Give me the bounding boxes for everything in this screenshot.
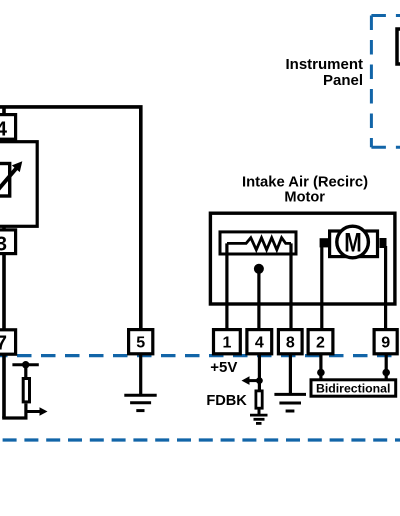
pin 2 bbox=[308, 330, 333, 354]
svg-text:FDBK: FDBK bbox=[206, 393, 247, 409]
wire: card right to pin 8 bbox=[289, 243, 292, 329]
FDBK label bbox=[206, 393, 247, 409]
+5V label bbox=[210, 359, 237, 376]
svg-text:Bidirectional: Bidirectional bbox=[316, 381, 390, 395]
intake air motor box bbox=[210, 213, 395, 304]
wire: wiper to pin 4 bbox=[257, 269, 260, 330]
svg-text:5: 5 bbox=[136, 334, 145, 351]
wire: pin 5 to ground bbox=[139, 354, 142, 395]
node junction with crossbar below pin 7 bbox=[12, 361, 38, 368]
svg-text:1: 1 bbox=[222, 334, 231, 351]
wire: left brush to pin 2 bbox=[320, 246, 323, 330]
svg-text:9: 9 bbox=[381, 334, 390, 351]
node (pin 9 wire) bbox=[382, 369, 390, 377]
instrument panel label bbox=[285, 56, 363, 89]
wire: node to resistor bbox=[24, 365, 27, 379]
svg-text:4: 4 bbox=[255, 334, 264, 351]
svg-text:+5V: +5V bbox=[210, 359, 237, 376]
svg-text:Instrument: Instrument bbox=[285, 56, 363, 73]
pin 4 (sensor) bbox=[0, 115, 16, 141]
pin 4 (motor) bbox=[247, 330, 272, 354]
wire: left vertical through pins 4-3-7 bbox=[2, 107, 6, 418]
ground (FDBK) bbox=[250, 415, 268, 423]
chassis boundary dashed line (upper) bbox=[0, 354, 400, 357]
potentiometer outline box bbox=[0, 142, 37, 227]
wire: pin 4 to FDBK resistor bbox=[258, 354, 261, 391]
svg-text:M: M bbox=[344, 228, 362, 258]
motor M1 bbox=[320, 226, 387, 258]
instrument panel dashed box bbox=[371, 16, 400, 148]
svg-text:Intake Air (Recirc): Intake Air (Recirc) bbox=[242, 175, 368, 191]
wire: FDBK resistor to ground bbox=[258, 408, 261, 415]
wire: bottom L below pin 7 bbox=[2, 404, 26, 419]
svg-text:Motor: Motor bbox=[284, 190, 325, 206]
wiper arrow bbox=[0, 161, 22, 194]
connector (instrument panel) bbox=[397, 29, 400, 64]
ground (pin 8) bbox=[274, 394, 306, 411]
FDBK resistor bbox=[256, 391, 262, 408]
bidirectional label box bbox=[311, 380, 396, 396]
pin 8 bbox=[278, 330, 302, 354]
wire: pin 8 to ground bbox=[289, 354, 292, 395]
wire: pin 2 to bidirectional bbox=[319, 354, 322, 380]
svg-text:7: 7 bbox=[0, 332, 7, 354]
svg-text:3: 3 bbox=[0, 233, 7, 255]
feedback potentiometer card bbox=[220, 232, 296, 254]
pin 5 bbox=[129, 330, 153, 354]
resistor body (recirc position sensor) bbox=[0, 164, 10, 197]
wire: pin 9 to bidirectional bbox=[385, 354, 388, 380]
pin 9 bbox=[374, 330, 397, 354]
intake air motor label bbox=[242, 175, 368, 206]
harness boundary dashed line (lower) bbox=[0, 438, 400, 441]
resistor (below pin 7) bbox=[23, 379, 29, 402]
FDBK node bbox=[256, 377, 263, 384]
svg-text:4: 4 bbox=[0, 119, 8, 141]
signal arrow to right (below pin 7) bbox=[26, 407, 48, 416]
FDBK signal arrow (left) bbox=[242, 376, 260, 385]
wiper node bbox=[254, 264, 264, 274]
svg-text:8: 8 bbox=[286, 334, 295, 351]
svg-text:Panel: Panel bbox=[323, 72, 363, 89]
pin 3 (sensor) bbox=[0, 230, 16, 255]
resistor element (zigzag) bbox=[227, 238, 291, 250]
node (pin 2 wire) bbox=[317, 369, 325, 377]
svg-text:2: 2 bbox=[316, 334, 325, 351]
wire: right brush to pin 9 bbox=[384, 246, 387, 330]
ground (pin 5) bbox=[124, 395, 156, 410]
pin 7 bbox=[0, 330, 16, 355]
wire: card left to pin 1 bbox=[225, 243, 228, 329]
wire: top horizontal from recirc pot to pin 5 bbox=[0, 107, 141, 330]
pin 1 bbox=[214, 330, 241, 354]
